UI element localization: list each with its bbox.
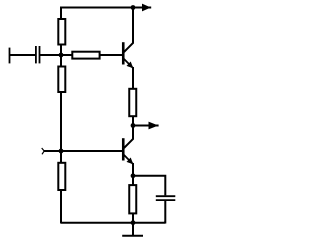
transistor Q2 emitter arrowhead xyxy=(127,158,134,165)
transistor Q1 base bar xyxy=(122,42,125,64)
wire node D to C2 with corner xyxy=(133,176,165,196)
resistor R2 (horizontal) xyxy=(72,52,99,59)
input 2 chevron terminal xyxy=(42,148,45,154)
node A junction dot xyxy=(59,53,64,58)
wire Q1 emitter to R6 xyxy=(132,67,134,89)
transistor Q2 collector wire xyxy=(124,126,133,149)
transistor Q1 emitter arrowhead xyxy=(127,62,134,69)
node B junction dot xyxy=(59,149,64,154)
ground bar xyxy=(122,235,143,237)
bottom rail wire xyxy=(61,222,165,224)
supply terminal wire (top) xyxy=(133,7,151,9)
input terminal bar (left input) xyxy=(9,48,11,64)
wire node B to Q2 base xyxy=(61,150,122,152)
wire R5 to ground node xyxy=(132,213,134,222)
wire Q2 emitter to node D xyxy=(132,163,134,176)
capacitor C2 bottom plate xyxy=(156,199,176,201)
resistor R5 xyxy=(129,185,136,213)
top rail wire with corner xyxy=(61,8,133,20)
transistor Q1 collector wire xyxy=(124,8,133,53)
wire R3 to node B xyxy=(60,92,62,151)
resistor R6 (between Q1 emitter and Q2 collector) xyxy=(129,89,136,116)
transistor Q2 base bar xyxy=(122,138,125,160)
wire R1 to node A xyxy=(60,46,62,56)
output terminal arrow xyxy=(149,122,159,130)
wire node B to R4 xyxy=(60,151,62,163)
wire R4 to bottom rail xyxy=(60,190,62,224)
supply terminal arrow (top) xyxy=(142,4,151,12)
node output junction dot xyxy=(131,123,136,128)
node ground junction dot xyxy=(131,220,136,225)
resistor R1 xyxy=(58,19,65,45)
capacitor C1 right plate xyxy=(39,46,41,63)
node D (emitter) junction dot xyxy=(131,173,136,178)
capacitor C1 left plate xyxy=(35,46,37,63)
wire input 2 to node B xyxy=(44,150,61,152)
resistor R3 xyxy=(58,67,65,93)
wire C2 to bottom rail with corner xyxy=(164,201,165,223)
wire node D to R5 xyxy=(132,176,134,185)
capacitor C2 top plate xyxy=(156,195,176,197)
transistor Q2 emitter wire xyxy=(124,155,133,164)
node supply (top) junction dot xyxy=(131,5,136,10)
transistor Q1 emitter wire xyxy=(124,59,133,68)
wire node A to R3 xyxy=(60,55,62,67)
wire input to C1 xyxy=(9,54,35,56)
resistor R4 xyxy=(58,163,65,190)
wire R2 to Q1 base xyxy=(100,54,122,56)
wire node A to R2 xyxy=(61,54,72,56)
wire C1 to node A xyxy=(40,54,61,56)
wire R6 to output node xyxy=(132,116,134,125)
ground stub wire xyxy=(132,223,134,237)
output terminal wire xyxy=(133,125,159,127)
